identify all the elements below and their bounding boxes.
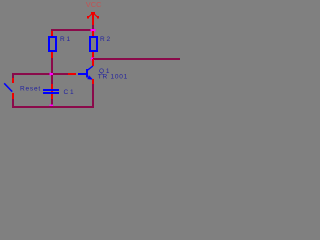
junction dot C1 bottom [50,105,54,108]
transistor Q1 base pin [67,73,76,75]
switch SW top pin [12,78,14,83]
capacitor C1 plates [43,89,59,91]
junction dot collector node [91,58,95,61]
capacitor C1 bottom pin [51,94,53,99]
transistor Q1 symbol [78,66,93,80]
resistor R2 top pin [92,31,94,37]
switch SW bottom wire [12,99,14,106]
wire C1 to bus [51,99,53,106]
switch SW bottom pin [12,93,14,99]
capacitor C1 top pin [51,84,53,89]
wire bottom bus [12,106,94,108]
power port VCC arrow [87,12,99,25]
resistor R2 body [90,37,97,51]
svg-text:C 1: C 1 [64,89,75,96]
svg-text:R 1: R 1 [60,36,71,43]
svg-text:Reset: Reset [20,85,41,92]
junction dot C1 top [50,73,54,76]
wire output to right edge [93,58,180,60]
svg-text:TR 1001: TR 1001 [98,74,128,81]
switch SW lever [4,83,12,91]
resistor R1 bottom pin [51,52,53,58]
wire node to C1 [51,75,53,84]
resistor R2 bottom pin [92,52,94,58]
wire R1 to node [51,58,53,73]
wire VCC stem to junction [92,25,94,29]
capacitor C1 pin between plates [51,91,53,92]
resistor R1 body [49,37,56,51]
transistor Q1 collector pin [92,59,94,66]
svg-text:R 2: R 2 [100,36,111,43]
wire emitter down [92,84,94,106]
wire left horizontal reset/base [12,73,68,75]
transistor Q1 emitter pin [92,79,94,84]
junction dot top at VCC/R2 [90,29,95,32]
switch SW top wire [12,75,14,78]
wire top horizontal R1 to R2/VCC [51,29,94,31]
resistor R1 top pin [51,31,53,37]
